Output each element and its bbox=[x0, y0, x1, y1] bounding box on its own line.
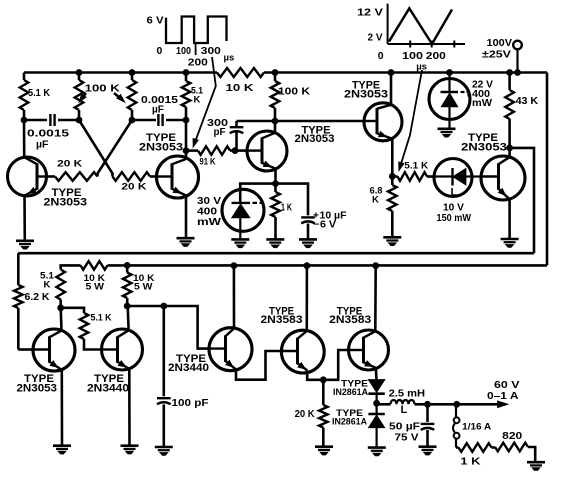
svg-text:0–1 A: 0–1 A bbox=[487, 390, 519, 402]
label Q2 bbox=[139, 132, 183, 153]
wire Q3 collector stub bbox=[274, 121, 277, 133]
graph square wave bbox=[166, 17, 227, 56]
transistor Q4 2N3053 (triangle buffer) bbox=[364, 103, 402, 141]
diode 22V zener bbox=[429, 73, 470, 129]
svg-text:5 W: 5 W bbox=[134, 282, 153, 293]
wire emitter node to 10uF cap bbox=[276, 184, 309, 216]
wire Q5 collector to feedback line bbox=[510, 148, 534, 253]
label 30V zener bbox=[197, 195, 221, 228]
graph triangle wave bbox=[388, 4, 465, 48]
node bus-1 bbox=[124, 263, 130, 269]
label Q4 bbox=[344, 79, 388, 100]
node Q4 emitter junction bbox=[389, 173, 395, 179]
fuse 1/16A bbox=[453, 404, 491, 447]
node rail-G bbox=[507, 70, 513, 76]
svg-text:µF: µF bbox=[36, 139, 49, 151]
ground Q7 bbox=[121, 446, 139, 454]
svg-text:100 K: 100 K bbox=[278, 86, 310, 98]
label L diode bbox=[437, 202, 472, 224]
svg-text:0: 0 bbox=[157, 45, 163, 57]
wire cross-coupling B (to Q1 base) bbox=[98, 120, 133, 177]
svg-text:0: 0 bbox=[378, 50, 384, 62]
svg-text:6.2 K: 6.2 K bbox=[25, 291, 50, 303]
resistor 100K (Q3 collector load) bbox=[271, 73, 311, 122]
wire top supply rail bbox=[24, 71, 547, 74]
wire Q7 emitter bbox=[128, 369, 131, 446]
resistor 20K (Q10 base bleed) bbox=[295, 380, 328, 447]
wire Q1 collector bbox=[23, 120, 26, 157]
svg-text:20 K: 20 K bbox=[121, 182, 146, 193]
transistor Q7 2N3440 bbox=[102, 329, 143, 370]
resistor 6.8K bbox=[370, 176, 397, 237]
wire Q5 emitter bbox=[508, 199, 511, 239]
label output bbox=[487, 379, 520, 402]
svg-text:100: 100 bbox=[402, 50, 423, 62]
svg-text:43 K: 43 K bbox=[516, 95, 539, 107]
label 1N2861A lower bbox=[332, 408, 367, 428]
wire Q4 emitter bbox=[391, 139, 394, 177]
capacitor 50uF 75V bbox=[389, 404, 434, 446]
node 100pF junction bbox=[161, 303, 167, 309]
svg-text:100: 100 bbox=[176, 45, 191, 57]
wire Q1 emitter bbox=[23, 196, 26, 241]
svg-text:−: − bbox=[314, 220, 320, 231]
node Q5 collector junction bbox=[507, 145, 513, 151]
capacitor 100pF bbox=[157, 306, 209, 447]
svg-text:L: L bbox=[401, 404, 408, 416]
wire left edge to 6.2K bbox=[17, 253, 20, 285]
resistor 10K 5W (vertical) bbox=[123, 265, 155, 306]
node fuse junction bbox=[454, 401, 460, 407]
wire Q7 collector bbox=[126, 306, 130, 330]
wire output line bbox=[415, 403, 502, 406]
wire cap2 to Q2 collector line bbox=[166, 119, 186, 122]
svg-text:10 K: 10 K bbox=[226, 82, 255, 94]
transistor Q10 2N3583 (series pass) bbox=[349, 330, 389, 370]
wire Q8 emitter to Q9 base bbox=[236, 351, 281, 380]
svg-text:6 V: 6 V bbox=[320, 220, 336, 231]
wire Q9 collector bbox=[305, 266, 308, 331]
svg-text:2N3053: 2N3053 bbox=[139, 141, 183, 153]
resistor 5.1K (bottom, to 10K 5W) bbox=[40, 265, 81, 307]
ground 100pF bbox=[155, 447, 173, 455]
resistor 5.1K (Q1 collector load) bbox=[20, 73, 51, 121]
node Q7 collector junction bbox=[124, 303, 130, 309]
svg-text:pF: pF bbox=[214, 126, 227, 138]
resistor 6.2K bbox=[14, 285, 50, 350]
svg-text:200: 200 bbox=[426, 50, 446, 62]
svg-text:2N3583: 2N3583 bbox=[261, 314, 303, 326]
wire emitter node to zener bbox=[240, 184, 275, 203]
diode 1N2861A (upper) bbox=[368, 380, 384, 404]
ground 22V zener bbox=[438, 129, 456, 137]
diode 1N2861A (lower) bbox=[368, 403, 384, 447]
label Q8 bbox=[168, 353, 209, 374]
label 22V zener bbox=[472, 79, 493, 110]
diode L 10V 150mW bbox=[434, 159, 481, 199]
svg-text:1/16 A: 1/16 A bbox=[462, 422, 491, 433]
svg-text:L: L bbox=[451, 187, 458, 199]
node A4 bbox=[183, 117, 189, 123]
node A3 bbox=[129, 117, 135, 123]
node rail-B bbox=[129, 70, 135, 76]
node A2 bbox=[76, 117, 82, 123]
label Q10 bbox=[329, 305, 371, 326]
wire Q5 collector bbox=[508, 148, 511, 157]
label Q9 bbox=[261, 305, 303, 326]
wire Q9 emitter to Q10 base bbox=[307, 350, 348, 380]
wire feedback line (Q5 collector bus) bbox=[18, 252, 534, 255]
label Q7 bbox=[87, 373, 129, 394]
svg-text:20 K: 20 K bbox=[57, 159, 82, 170]
wire Q6 emitter bbox=[60, 370, 63, 446]
svg-text:820: 820 bbox=[502, 430, 522, 442]
arrow output bbox=[498, 401, 508, 408]
svg-text:5.1 K: 5.1 K bbox=[404, 161, 428, 172]
svg-text:5.1 K: 5.1 K bbox=[91, 313, 112, 324]
svg-text:1 K: 1 K bbox=[281, 203, 293, 214]
svg-text:mW: mW bbox=[472, 97, 492, 109]
svg-text:IN2861A: IN2861A bbox=[333, 387, 368, 398]
svg-text:100V: 100V bbox=[487, 37, 513, 49]
node 20K junction bbox=[320, 377, 326, 383]
label 100V supply bbox=[482, 37, 512, 61]
wire Q7 collector to Q8 base bbox=[127, 306, 209, 349]
wire Q3 collector line to Q4 base bbox=[237, 120, 365, 123]
ground 820 bbox=[527, 462, 545, 470]
resistor 1K (divider) bbox=[456, 443, 492, 467]
ground 10uF bbox=[299, 239, 317, 247]
node Q6 collector junction bbox=[58, 305, 64, 311]
node rail-E bbox=[388, 70, 394, 76]
svg-text:100 pF: 100 pF bbox=[172, 397, 210, 409]
node A1 bbox=[21, 117, 27, 123]
label square wave axis bbox=[147, 15, 235, 69]
ground Q5 bbox=[501, 239, 519, 247]
ground Q1 bbox=[16, 241, 34, 249]
resistor 91K bbox=[186, 146, 247, 166]
transistor Q2 2N3053 (astable right) bbox=[157, 156, 199, 198]
svg-text:2N3053: 2N3053 bbox=[295, 133, 335, 145]
diode 30V zener bbox=[222, 189, 264, 239]
label Q5 bbox=[461, 132, 507, 153]
node rail-H bbox=[515, 70, 521, 76]
terminal 100V supply bbox=[513, 41, 522, 73]
ground 6.8K bbox=[383, 237, 401, 245]
resistor 10K (series in rail) bbox=[217, 68, 264, 94]
node Q3 base junction bbox=[232, 148, 238, 154]
wire node to 5.1K bottom bbox=[61, 308, 84, 313]
resistor 1K (Q3 emitter) bbox=[271, 184, 292, 240]
node bus-3 bbox=[304, 263, 310, 269]
svg-text:IN2861A: IN2861A bbox=[332, 417, 367, 428]
svg-text:12 V: 12 V bbox=[357, 7, 383, 19]
wire Q4 collector bbox=[390, 73, 393, 105]
capacitor 0.0015uF (right coupling) bbox=[141, 95, 179, 126]
wire 100V bottom bus bbox=[108, 264, 548, 267]
svg-text:200: 200 bbox=[188, 57, 208, 69]
svg-text:5 W: 5 W bbox=[86, 282, 105, 293]
svg-text:75 V: 75 V bbox=[395, 432, 419, 444]
svg-text:2N3053: 2N3053 bbox=[44, 197, 88, 209]
label 1N2861A upper bbox=[333, 379, 368, 399]
label 100K with pointer arrows bbox=[79, 83, 125, 103]
resistor 100K (astable, right) bbox=[128, 73, 137, 121]
svg-text:2N3440: 2N3440 bbox=[168, 362, 209, 374]
transistor Q6 2N3053 (feedback amp) bbox=[33, 329, 75, 371]
resistor 20K (Q1 base) bbox=[47, 159, 98, 181]
transistor Q8 2N3440 (driver) bbox=[209, 328, 252, 371]
node rail-C bbox=[183, 70, 189, 76]
wire Q10 emitter bbox=[374, 368, 377, 380]
svg-text:µF: µF bbox=[152, 105, 164, 116]
wire Q10 collector bbox=[374, 266, 377, 332]
wire Q8 collector bbox=[233, 266, 236, 329]
svg-text:5.1 K: 5.1 K bbox=[28, 87, 50, 99]
resistor 5.1K (Q7 base) bbox=[80, 313, 112, 350]
node Q3 collector junction bbox=[272, 118, 278, 124]
svg-text:91 K: 91 K bbox=[200, 156, 216, 166]
label Q6 bbox=[17, 373, 58, 394]
wire Q6 collector bbox=[59, 308, 62, 331]
node 50uF junction bbox=[425, 401, 431, 407]
svg-text:2 V: 2 V bbox=[368, 32, 383, 44]
svg-text:2.5 mH: 2.5 mH bbox=[389, 387, 426, 399]
svg-text:20 K: 20 K bbox=[295, 408, 315, 420]
resistor 20K (Q2 base) bbox=[113, 172, 157, 192]
svg-text:mW: mW bbox=[197, 216, 221, 228]
svg-text:2N3583: 2N3583 bbox=[329, 314, 371, 326]
node output junction bbox=[374, 400, 380, 406]
label triangle wave axis bbox=[357, 7, 446, 73]
svg-text:2N3440: 2N3440 bbox=[87, 382, 129, 394]
ground 1K bbox=[266, 239, 284, 247]
node rail-A bbox=[76, 70, 82, 76]
svg-text:K: K bbox=[194, 95, 201, 106]
svg-text:±25V: ±25V bbox=[482, 49, 511, 61]
wire Q2 emitter bbox=[185, 196, 188, 239]
resistor 820 bbox=[492, 430, 536, 462]
svg-text:2N3053: 2N3053 bbox=[344, 88, 388, 100]
node rail-D bbox=[272, 70, 278, 76]
svg-text:2N3053: 2N3053 bbox=[17, 382, 58, 394]
svg-text:300: 300 bbox=[201, 45, 221, 57]
svg-text:µs: µs bbox=[224, 53, 235, 64]
wire cap to 100K node bbox=[58, 119, 79, 122]
svg-text:150 mW: 150 mW bbox=[437, 212, 472, 224]
resistor 43K bbox=[505, 73, 538, 148]
ground 30V zener bbox=[231, 239, 249, 247]
transistor Q3 2N3053 (squarer) bbox=[247, 131, 287, 171]
node Q3 emitter junction bbox=[273, 181, 279, 187]
wire Q1 collector node to cap bbox=[24, 119, 47, 122]
wire Q2 collector bbox=[185, 120, 188, 159]
ground Q2 bbox=[177, 238, 195, 246]
svg-text:6 V: 6 V bbox=[147, 15, 164, 27]
svg-text:K: K bbox=[372, 195, 379, 206]
capacitor 0.0015uF (left coupling) bbox=[27, 114, 69, 151]
label Q3 bbox=[295, 124, 335, 145]
resistor 10K 5W (horizontal) bbox=[81, 261, 108, 292]
capacitor 10uF 6V bbox=[301, 211, 346, 240]
resistor 5.1K (Q2 collector load) bbox=[182, 73, 204, 121]
svg-text:2N3053: 2N3053 bbox=[461, 141, 507, 153]
node rail-F bbox=[447, 70, 453, 76]
resistor 100K (astable, left) bbox=[75, 73, 84, 121]
ground 50uF bbox=[419, 447, 437, 455]
ground 1N2861A lower bbox=[368, 448, 386, 456]
ground 20K bbox=[315, 447, 333, 455]
transistor Q5 2N3053 (error amp) bbox=[481, 156, 525, 200]
wire cross-coupling A (to Q2 base) bbox=[79, 120, 113, 177]
ground Q6 bbox=[53, 446, 71, 454]
pointer square wave to Q3 base bbox=[193, 57, 216, 147]
svg-text:1 K: 1 K bbox=[460, 456, 481, 468]
wire right edge 100V feed bbox=[546, 73, 549, 266]
inductor 2.5mH bbox=[377, 387, 426, 416]
wire Q3 emitter bbox=[274, 169, 277, 184]
transistor Q1 2N3053 (astable left) bbox=[8, 157, 47, 196]
transistor Q9 2N3583 (driver 2) bbox=[281, 330, 324, 373]
label Q1 bbox=[44, 187, 88, 209]
resistor 5.1K (to L diode) bbox=[392, 161, 434, 181]
capacitor 300pF bbox=[207, 117, 243, 151]
node bus-4 bbox=[373, 263, 379, 269]
svg-text:K: K bbox=[44, 280, 51, 291]
node bus-2 bbox=[231, 263, 237, 269]
node Q2 collector junction bbox=[183, 148, 189, 154]
pointer triangle wave to Q4 emitter bbox=[399, 70, 422, 171]
wire 100K node to cap2 bbox=[132, 119, 156, 122]
